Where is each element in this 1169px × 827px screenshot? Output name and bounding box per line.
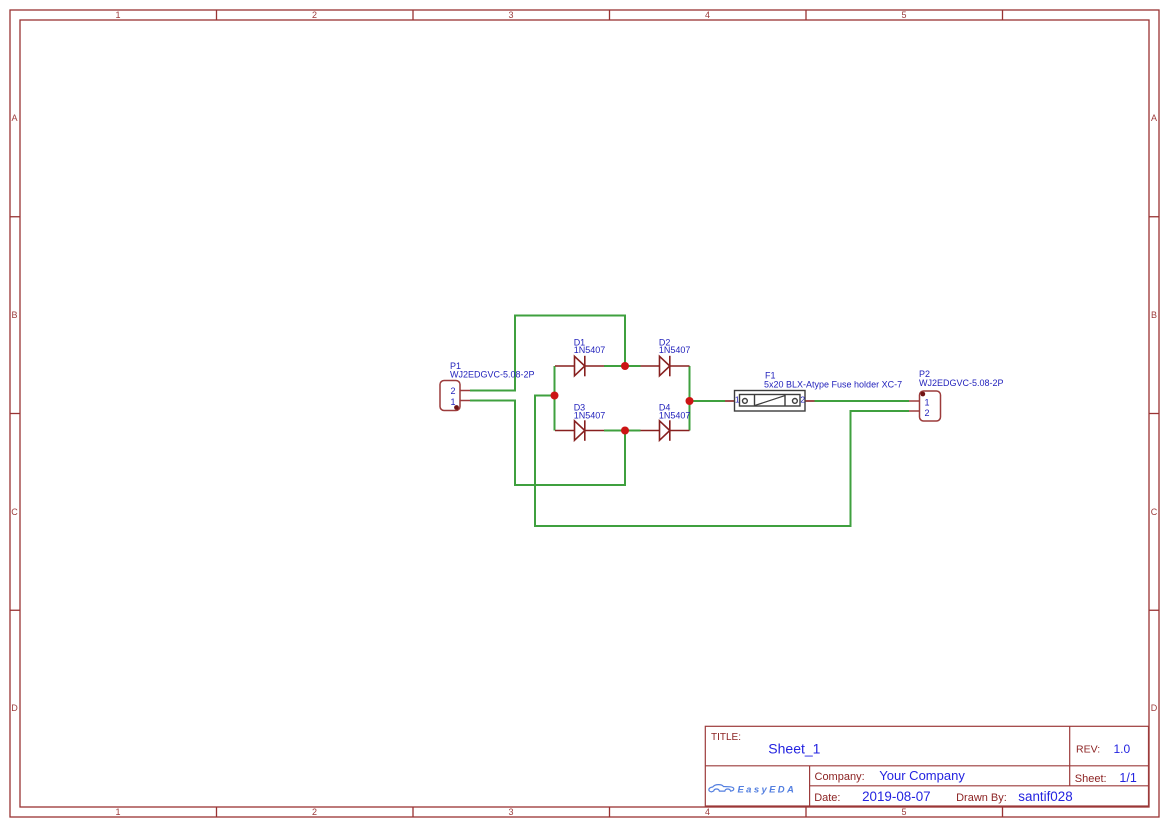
svg-text:1N5407: 1N5407 [574,345,606,355]
svg-text:5: 5 [901,10,906,20]
svg-text:2019-08-07: 2019-08-07 [862,789,931,804]
svg-text:EasyEDA: EasyEDA [738,784,797,795]
svg-text:Company:: Company: [815,771,865,783]
svg-text:1: 1 [924,398,929,408]
svg-text:1: 1 [735,394,740,404]
svg-text:4: 4 [705,807,710,817]
svg-text:1N5407: 1N5407 [574,411,606,421]
svg-text:1: 1 [115,10,120,20]
svg-text:Drawn By:: Drawn By: [956,792,1007,804]
svg-text:C: C [1151,507,1158,517]
svg-text:A: A [1151,113,1157,123]
svg-text:4: 4 [705,10,710,20]
svg-text:1.0: 1.0 [1114,742,1131,756]
svg-text:2: 2 [312,807,317,817]
svg-text:1: 1 [450,397,455,407]
svg-text:Sheet_1: Sheet_1 [768,741,820,757]
svg-text:WJ2EDGVC-5.08-2P: WJ2EDGVC-5.08-2P [919,378,1004,388]
svg-text:B: B [11,310,17,320]
svg-text:REV:: REV: [1076,744,1100,756]
svg-text:1N5407: 1N5407 [659,411,691,421]
svg-text:Date:: Date: [814,792,840,804]
svg-text:5x20 BLX-Atype Fuse holder XC-: 5x20 BLX-Atype Fuse holder XC-7 [764,379,902,389]
svg-text:B: B [1151,310,1157,320]
svg-text:D: D [11,703,18,713]
svg-text:Sheet:: Sheet: [1075,773,1107,785]
svg-text:2: 2 [312,10,317,20]
svg-text:2: 2 [800,394,805,404]
svg-text:WJ2EDGVC-5.08-2P: WJ2EDGVC-5.08-2P [450,369,535,379]
svg-text:C: C [11,507,18,517]
svg-text:2: 2 [450,386,455,396]
svg-text:1N5407: 1N5407 [659,345,691,355]
svg-text:1: 1 [115,807,120,817]
svg-text:TITLE:: TITLE: [711,732,741,743]
svg-text:D: D [1151,703,1158,713]
svg-text:3: 3 [508,10,513,20]
svg-text:A: A [11,113,17,123]
svg-text:2: 2 [924,408,929,418]
svg-text:3: 3 [508,807,513,817]
svg-text:5: 5 [901,807,906,817]
svg-text:santif028: santif028 [1018,789,1072,804]
svg-text:Your Company: Your Company [879,768,965,783]
svg-text:1/1: 1/1 [1119,771,1136,785]
